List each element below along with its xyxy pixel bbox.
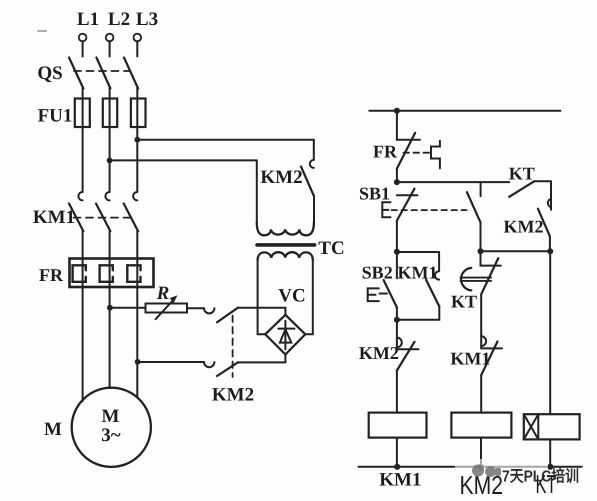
contact KM2 interlock blade — [397, 342, 415, 371]
wire coil KM2 to rail — [480, 438, 482, 467]
wire phase2 KM1 to motor — [109, 231, 111, 388]
wire upper blade to rectifier — [238, 307, 285, 309]
wire SB1 NO to node D — [480, 222, 482, 251]
wire phase3 tap to KM2 contact — [137, 139, 313, 141]
wire node C down — [396, 320, 398, 349]
svg-text:KT: KT — [509, 164, 535, 184]
node coil KT rail — [547, 464, 553, 470]
transformer TC core — [257, 243, 315, 247]
wire node A rail — [397, 181, 509, 183]
contact KM1 interlock hook — [481, 336, 486, 346]
stray mark top left — [38, 30, 46, 32]
node phase2 tap — [107, 158, 113, 164]
KM2 brake contact upper hook — [204, 308, 214, 313]
fuse FU1 element 1 — [75, 99, 90, 128]
wire phase3 line down to KM2 contact — [313, 140, 315, 160]
svg-text:FR: FR — [39, 265, 64, 285]
wire lower tap to KM2 contact — [138, 361, 204, 363]
coil KM2 — [451, 413, 511, 438]
svg-text:L1: L1 — [77, 9, 99, 30]
contactor KM1 pole1 fixed hook — [78, 192, 82, 200]
wire node E to coil KT — [549, 251, 551, 414]
node phase2 to R tap — [107, 305, 113, 311]
wire phase1 FU1 to KM1 — [82, 99, 84, 192]
coil KM1 — [369, 413, 427, 438]
timer KT delay contact stub — [481, 251, 501, 265]
svg-text:SB1: SB1 — [359, 184, 390, 204]
svg-text:TC: TC — [318, 238, 344, 259]
terminal L2 — [106, 34, 114, 42]
svg-text:KM2: KM2 — [260, 167, 302, 188]
node top rail junction — [394, 108, 400, 114]
wire stub rectifier bottom — [284, 355, 286, 363]
transformer TC secondary winding — [258, 252, 313, 259]
node E — [547, 248, 553, 254]
motor M circle — [72, 388, 151, 467]
svg-text:3~: 3~ — [101, 425, 121, 446]
switch QS pole 3 blade — [124, 58, 138, 89]
wire rail to FR contact — [396, 111, 398, 140]
node phase3 tap — [134, 137, 140, 143]
svg-text:L3: L3 — [136, 9, 158, 30]
contactor KM1 pole2 blade — [96, 204, 110, 232]
wire phase3 KM1 to motor — [136, 231, 138, 398]
contactor KM2 hook at transformer — [310, 160, 314, 168]
node coil KM2 rail — [478, 464, 484, 470]
contactor KM1 pole3 fixed hook — [133, 192, 137, 200]
KM2 brake contact lower hook — [204, 362, 214, 367]
resistor R arrowhead — [170, 295, 178, 303]
node phase3 lower tap — [135, 359, 141, 365]
contactor KM1 pole2 fixed hook — [105, 192, 109, 200]
button SB1 NC bar — [397, 194, 418, 196]
node B — [394, 249, 400, 255]
switch QS pole 1 blade — [69, 58, 83, 89]
thermal relay FR box — [70, 259, 154, 288]
FR heater element 1 — [73, 265, 86, 282]
wire lower blade to rectifier — [238, 361, 285, 363]
wire L2 to QS — [109, 41, 111, 56]
svg-text:7天PLC培训: 7天PLC培训 — [502, 468, 579, 486]
wire stub to rectifier top — [284, 308, 286, 315]
wire KM1 aux stub — [438, 252, 440, 271]
wire phase2 tap to transformer — [110, 159, 257, 161]
button SB1 NC blade — [397, 189, 415, 221]
wire phase2 line down to primary — [256, 160, 258, 222]
contact KM1 aux hook — [435, 271, 439, 279]
contactor KM1 pole1 blade — [69, 204, 83, 232]
svg-text:FU1: FU1 — [38, 106, 73, 127]
svg-text:KM2: KM2 — [359, 343, 399, 363]
wire FR to node A — [396, 168, 398, 182]
wire QS3 to FU1 — [136, 88, 138, 99]
wire secondary left — [258, 259, 266, 334]
svg-text:KM2: KM2 — [504, 217, 544, 237]
svg-text:VC: VC — [278, 286, 305, 307]
button SB1 actuator — [382, 202, 390, 217]
contact KM2 interlock hook — [397, 338, 402, 348]
button SB1 NO stub — [480, 182, 482, 196]
contactor KM2 blade at transformer — [301, 167, 314, 197]
svg-text:SB2: SB2 — [362, 263, 393, 283]
contact KM1 interlock blade — [481, 342, 497, 376]
relay FR link dashed — [404, 152, 431, 154]
coil KT delay box — [524, 414, 539, 439]
coil KT body — [524, 414, 580, 439]
resistor R body — [146, 304, 188, 313]
contact KM1 aux blade — [426, 280, 439, 307]
node D — [478, 248, 484, 254]
watermark blob — [472, 465, 501, 477]
control bottom rail — [359, 466, 582, 468]
resistor R adjust arrow — [156, 299, 175, 319]
wire corner down — [550, 181, 552, 210]
contactor KM1 linkage dashed — [74, 217, 131, 219]
terminal L1 — [79, 34, 87, 42]
relay FR NC contact bar — [397, 139, 420, 141]
relay FR trip symbol — [431, 141, 440, 169]
node C — [394, 317, 400, 323]
timer KT delay contact blade — [481, 258, 498, 294]
rectifier diode triangle — [280, 329, 291, 342]
wire coil KM1 to rail — [396, 438, 398, 467]
svg-text:KM2: KM2 — [212, 385, 254, 406]
wire node D to node E — [481, 250, 551, 252]
svg-text:L2: L2 — [108, 9, 130, 30]
svg-text:M: M — [102, 406, 120, 427]
button SB1 link dashed — [392, 209, 467, 211]
wire KM2 right to node E — [549, 236, 551, 251]
contact KM2 right hook — [548, 199, 551, 207]
svg-text:KM1: KM1 — [33, 207, 75, 228]
wire QS2 to FU1 — [109, 88, 111, 99]
transformer TC primary winding — [257, 223, 314, 236]
wire QS1 to FU1 — [82, 88, 84, 99]
wire KM1 aux bottom — [397, 306, 439, 319]
rectifier diode cathode bar — [278, 328, 294, 330]
KM2 brake contact upper blade — [217, 308, 238, 323]
button SB2 actuator — [368, 288, 387, 301]
wire L3 to QS — [136, 41, 138, 56]
svg-text:QS: QS — [37, 63, 62, 84]
contact KM2 right blade — [538, 209, 550, 237]
FR heater element 2 — [100, 265, 113, 282]
rectifier diode axis — [284, 321, 286, 349]
switch QS linkage dashed — [74, 70, 130, 72]
contactor KM1 pole3 blade — [124, 204, 138, 232]
switch QS pole 2 blade — [96, 58, 110, 89]
wire KT NO to corner — [534, 180, 551, 182]
svg-text:KM1: KM1 — [379, 470, 421, 491]
KM2 brake linkage dashed — [232, 316, 234, 378]
svg-text:M: M — [44, 419, 62, 440]
timer KT delay arc — [461, 268, 471, 291]
timer KT delay chords — [461, 278, 492, 281]
contact KM1 interlock bar — [481, 347, 502, 349]
watermark fade — [455, 459, 548, 480]
wire KM1 interlock to coil KM2 — [480, 375, 482, 412]
wire L1 to QS — [82, 41, 84, 56]
wire KT contact down — [480, 294, 482, 348]
wire phase2 FU1 to KM1 — [109, 99, 111, 192]
svg-text:KM1: KM1 — [398, 263, 438, 283]
button SB2 stub — [396, 252, 398, 278]
wire tap to resistor R — [110, 307, 146, 309]
KM2 brake contact lower blade — [217, 362, 238, 376]
button SB2 blade — [384, 280, 397, 307]
wire phase3 FU1 to KM1 — [136, 99, 138, 192]
wire coil KT to rail — [549, 439, 551, 466]
wire SB1 to node B — [396, 221, 398, 252]
timer KT NO contact blade — [509, 181, 534, 197]
node A — [394, 179, 400, 185]
wire SB2 to node C — [396, 307, 398, 319]
wire KM2 interlock to coil — [396, 370, 398, 412]
svg-text:FR: FR — [373, 142, 398, 162]
wire parallel branch top — [397, 251, 439, 253]
node coil KM1 rail — [394, 464, 400, 470]
wire R to KM2 contact — [187, 307, 204, 309]
wire KM2 blade to transformer primary — [313, 196, 315, 223]
fuse FU1 element 3 — [131, 99, 146, 128]
FR heater element 3 — [127, 265, 140, 282]
svg-text:KT: KT — [451, 292, 477, 312]
terminal L3 — [134, 34, 142, 42]
button SB1 NO blade — [467, 192, 481, 222]
svg-text:R: R — [156, 283, 170, 304]
control top rail — [369, 110, 560, 112]
wire secondary right — [305, 259, 313, 334]
relay FR NC contact blade — [397, 133, 415, 169]
fuse FU1 element 2 — [103, 99, 117, 128]
svg-text:KM1: KM1 — [450, 349, 490, 369]
rectifier VC diamond — [265, 315, 305, 355]
contact KM2 interlock bar — [397, 348, 419, 350]
wire phase1 KM1 to motor — [82, 231, 84, 401]
